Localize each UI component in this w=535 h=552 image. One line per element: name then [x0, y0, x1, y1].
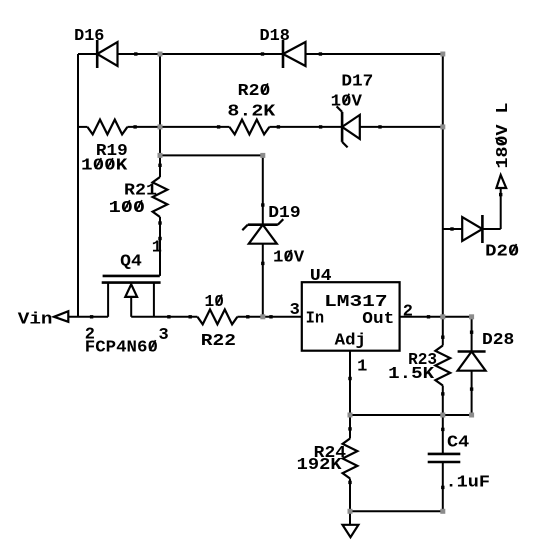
resistor R21 — [153, 177, 168, 217]
wire C4 column — [442, 415, 444, 454]
pin end dots — [134, 52, 137, 55]
wire right rail — [442, 54, 444, 346]
node Vin arrow — [54, 311, 68, 322]
svg-text:R21: R21 — [124, 181, 157, 200]
svg-text:D17: D17 — [341, 73, 373, 92]
diode D28 — [458, 350, 486, 353]
svg-text:1.5K: 1.5K — [388, 365, 435, 384]
wire ground stub — [349, 511, 351, 525]
svg-text:D20: D20 — [485, 243, 519, 262]
svg-text:10V: 10V — [273, 249, 305, 268]
svg-text:C4: C4 — [447, 433, 469, 452]
wire gate feed row — [160, 154, 263, 156]
svg-text:Adj: Adj — [335, 332, 366, 351]
svg-text:1: 1 — [152, 239, 162, 258]
wire D28 column — [471, 317, 473, 352]
svg-text:10V: 10V — [331, 92, 363, 111]
svg-text:192K: 192K — [297, 456, 343, 475]
svg-text:3: 3 — [290, 301, 300, 320]
capacitor C4 — [428, 453, 461, 456]
svg-text:8.2K: 8.2K — [227, 102, 276, 121]
wire U4 Out to D28 corner — [400, 316, 472, 318]
junction gate feed — [158, 153, 163, 158]
resistor R19 — [87, 120, 127, 135]
wire D20 branch — [443, 228, 462, 230]
svg-text:FCP4N60: FCP4N60 — [85, 339, 158, 358]
svg-text:D28: D28 — [482, 331, 514, 350]
ground — [343, 525, 359, 537]
resistor R22 — [197, 310, 237, 325]
svg-text:Vin: Vin — [18, 310, 53, 329]
resistor R24 — [343, 439, 358, 479]
wire bottom row — [350, 510, 443, 512]
svg-text:D18: D18 — [260, 27, 290, 46]
wire U4 Adj column — [349, 351, 351, 415]
junction top right corner — [440, 52, 445, 57]
regulator U4 LM317 box — [302, 282, 400, 351]
diode D16 — [96, 40, 99, 68]
svg-text:Q4: Q4 — [120, 253, 142, 272]
svg-text:2: 2 — [403, 303, 413, 322]
wire Q4 pin3 to U4 In — [131, 316, 197, 318]
svg-text:D19: D19 — [268, 204, 300, 223]
junction top/gate column — [158, 52, 163, 57]
svg-text:100: 100 — [109, 199, 146, 218]
junction C4 top — [440, 413, 445, 418]
junction ground — [348, 509, 353, 514]
wire Vin to Q4 pin2 — [68, 316, 108, 318]
resistor R20 — [229, 120, 269, 135]
svg-text:R22: R22 — [201, 332, 236, 351]
wire adj row — [350, 414, 472, 416]
svg-text:D16: D16 — [74, 27, 104, 46]
junction C4 bottom corner — [440, 509, 445, 514]
zener diode D17 — [341, 112, 344, 142]
svg-text:.1uF: .1uF — [446, 474, 491, 493]
node 180V L label — [494, 103, 513, 169]
junction out row/right rail — [440, 314, 445, 319]
svg-text:R20: R20 — [238, 82, 271, 101]
zener diode D19 — [248, 223, 278, 226]
node 180V L arrow — [496, 175, 506, 188]
diode D18 — [282, 40, 285, 68]
junction row2/gate column — [158, 124, 163, 129]
junction D28 bottom corner — [469, 413, 474, 418]
junction adj/R24 — [348, 413, 353, 418]
wire R24 column — [349, 415, 351, 439]
svg-text:1: 1 — [357, 358, 367, 377]
resistor R23 — [435, 346, 450, 386]
wire D19 column — [262, 155, 264, 224]
junction gate feed corner — [260, 153, 265, 158]
junction D28 top corner — [469, 314, 474, 319]
junction row2/right rail — [440, 124, 445, 129]
svg-text:U4: U4 — [310, 267, 332, 286]
svg-text:180V L: 180V L — [494, 103, 513, 169]
svg-text:In: In — [306, 310, 325, 329]
wire left rail — [77, 54, 79, 317]
junction D19 bottom — [260, 314, 265, 319]
svg-text:3: 3 — [159, 326, 169, 345]
wire top row — [78, 53, 97, 55]
svg-text:Out: Out — [362, 310, 394, 329]
svg-text:100K: 100K — [81, 157, 128, 176]
transistor Q4 MOSFET — [103, 275, 160, 278]
wire second row — [78, 126, 87, 128]
wire gate column — [159, 54, 161, 177]
diode D20 — [462, 217, 482, 241]
